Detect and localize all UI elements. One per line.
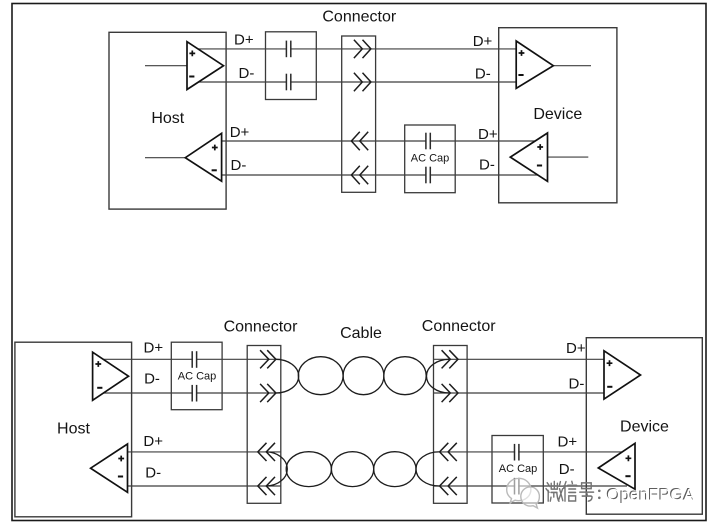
connector chevrons >> D+ upper (bottom left) — [260, 350, 276, 368]
svg-text:D+: D+ — [478, 126, 498, 143]
svg-text:D-: D- — [145, 464, 161, 481]
connector chevrons << D- lower (bottom right) — [440, 477, 457, 495]
svg-text:OpenFPGA: OpenFPGA — [607, 485, 696, 504]
capacitor C top D- (top diagram) — [286, 73, 290, 91]
svg-text:Host: Host — [151, 110, 184, 127]
cable upper pair: ellipse 2 — [298, 357, 343, 395]
host RX op-amp triangle (top) — [185, 133, 221, 181]
watermark text: 微 — [546, 481, 563, 501]
cable lower pair: ellipse 4 — [374, 452, 416, 487]
connector chevrons << D+ lower (bottom right) — [440, 443, 457, 461]
cable lower pair: left end half-loop — [266, 452, 439, 487]
device RX op-amp triangle (bottom) — [604, 351, 641, 399]
wire D+ upper (top) — [192, 48, 517, 50]
wire D- upper left segment (bottom) — [100, 392, 281, 394]
svg-text:Device: Device — [620, 419, 669, 436]
device RX op-amp triangle (top) — [516, 41, 553, 88]
watermark text: colon — [598, 490, 601, 500]
watermark logo (wechat bubbles) — [507, 478, 540, 508]
host RX op-amp triangle (bottom) — [91, 444, 128, 492]
connector box (top) — [342, 36, 376, 192]
host RX output stub (top) — [145, 157, 188, 159]
svg-text:AC Cap: AC Cap — [499, 463, 538, 475]
device RX output stub (top) — [551, 65, 591, 67]
Device box (bottom) — [586, 338, 702, 515]
svg-text:D+: D+ — [230, 124, 250, 141]
cable upper pair: ellipse 3 — [343, 357, 384, 395]
wire D+ lower right segment (bottom) — [434, 451, 626, 453]
svg-text:D+: D+ — [558, 433, 578, 450]
svg-text:D+: D+ — [473, 33, 493, 50]
wire D+ upper left segment (bottom) — [100, 358, 281, 360]
AC cap plates upper D+ (bottom left) — [192, 351, 196, 369]
connector box (bottom right) — [434, 346, 468, 504]
cable upper pair: right end half-loop — [426, 359, 449, 393]
svg-text:D-: D- — [479, 157, 495, 174]
watermark text: 号 — [580, 483, 594, 501]
AC cap plates lower D- (bottom right) — [515, 477, 519, 495]
host TX op-amp triangle (bottom) — [93, 352, 129, 400]
wire D- upper right segment (bottom) — [434, 392, 605, 394]
connector chevrons << D+ lower (top) — [351, 132, 368, 150]
AC cap plates lower D+ (bottom right) — [515, 443, 519, 461]
watermark text: 信 — [564, 481, 577, 501]
wire D- upper (top) — [192, 81, 517, 83]
cable lower pair: right end half-loop — [416, 452, 439, 486]
connector chevrons << D- lower (top) — [351, 166, 368, 184]
connector chevrons >> D- upper (bottom left) — [260, 384, 276, 402]
wire D+ lower left segment (bottom) — [124, 451, 281, 453]
device TX input stub (top) — [545, 156, 588, 158]
host TX op-amp triangle (top) — [187, 42, 224, 90]
AC Cap box (bottom right) — [492, 436, 543, 504]
svg-text:D+: D+ — [566, 340, 586, 357]
AC Cap box (top) — [405, 125, 456, 193]
capacitor box (top) — [266, 32, 317, 100]
host TX input stub (top) — [145, 65, 190, 67]
AC cap plates D- lower (top diagram) — [426, 166, 430, 184]
svg-text:AC Cap: AC Cap — [178, 370, 217, 382]
svg-text:D-: D- — [231, 157, 247, 174]
svg-text:D+: D+ — [234, 32, 254, 49]
svg-text:Connector: Connector — [422, 318, 496, 335]
svg-text:D+: D+ — [143, 433, 163, 450]
svg-text:D-: D- — [559, 461, 575, 478]
svg-text:Host: Host — [57, 421, 90, 438]
AC cap plates upper D- (bottom left) — [192, 384, 196, 402]
capacitor C top D+ (top diagram) — [286, 40, 290, 58]
cable lower pair: ellipse 2 — [286, 452, 331, 487]
svg-text:Connector: Connector — [224, 319, 298, 336]
svg-text:D+: D+ — [144, 340, 164, 357]
svg-text:D-: D- — [144, 370, 160, 387]
wire D- lower left segment (bottom) — [124, 485, 281, 487]
cable upper pair: left end half-loop — [276, 357, 449, 395]
connector chevrons >> D+ upper (bottom right) — [442, 350, 458, 368]
connector chevrons >> D- upper (bottom right) — [442, 384, 458, 402]
wire D- lower (top) — [219, 174, 538, 176]
AC Cap box (bottom left) — [171, 342, 222, 410]
wire D+ lower (top) — [219, 140, 538, 142]
svg-text:Connector: Connector — [322, 9, 396, 26]
svg-text:D-: D- — [239, 65, 255, 82]
cable lower pair: ellipse 3 — [331, 452, 373, 487]
connector chevrons << D+ lower (bottom left) — [258, 443, 275, 461]
wire D+ upper right segment (bottom) — [434, 358, 605, 360]
Device box (top) — [499, 28, 617, 203]
connector box (bottom left) — [247, 346, 281, 504]
svg-text:AC Cap: AC Cap — [411, 153, 450, 165]
connector chevrons >> D+ (top) — [354, 40, 371, 58]
wire D- lower right segment (bottom) — [434, 485, 628, 487]
svg-text:Device: Device — [533, 106, 582, 123]
svg-text:D-: D- — [475, 66, 491, 83]
device TX op-amp triangle (bottom) — [598, 443, 635, 489]
AC cap plates D+ lower (top diagram) — [426, 132, 430, 150]
Host box (top) — [109, 32, 226, 209]
connector chevrons >> D- (top) — [354, 73, 371, 91]
device TX op-amp triangle (top) — [510, 133, 547, 181]
cable upper pair: ellipse 4 — [384, 357, 426, 395]
svg-text:D-: D- — [569, 376, 585, 393]
Host box (bottom) — [15, 342, 132, 517]
connector chevrons << D- lower (bottom left) — [258, 477, 275, 495]
svg-text:Cable: Cable — [340, 325, 382, 342]
